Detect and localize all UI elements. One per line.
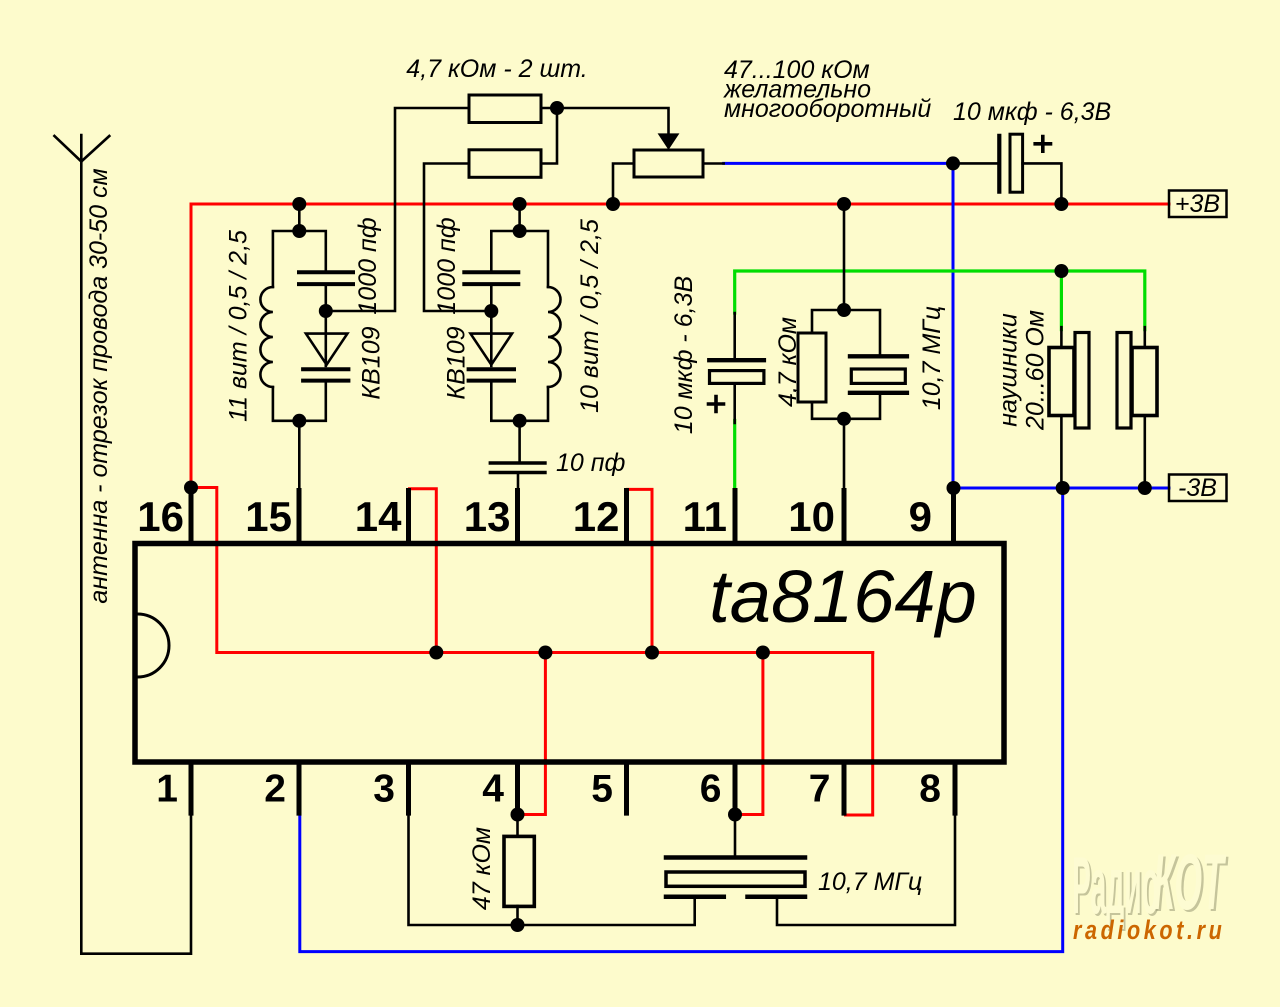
svg-text:ta8164p: ta8164p	[709, 555, 977, 638]
IC notch	[138, 614, 170, 677]
plus sign C5	[1035, 137, 1050, 152]
capacitor C1 1000pF plates	[299, 272, 353, 284]
filter Z1 10.7MHz plates	[850, 356, 907, 393]
node contour2 top stub	[518, 204, 521, 231]
wire pin10 block top	[843, 204, 846, 310]
wire green pin11 cap bottom	[733, 421, 736, 490]
svg-text:13: 13	[464, 493, 511, 540]
pin 1 lead	[189, 764, 194, 816]
svg-text:8: 8	[919, 768, 941, 811]
wire red bus to pin4	[519, 653, 546, 815]
pin 9 lead	[951, 489, 956, 542]
pin 6 lead	[733, 764, 738, 816]
potentiometer RP1 body	[634, 150, 703, 177]
resistor R2 4.7k body	[469, 150, 541, 178]
resistor R3 4.7k body	[798, 333, 826, 402]
quartz ZQ1 10.7MHz top plate	[666, 855, 805, 860]
wire red bus to pin6	[736, 653, 763, 815]
svg-text:КВ109: КВ109	[443, 326, 471, 399]
wire quartz right to pin8	[777, 816, 955, 925]
resistor R4 47k body	[504, 836, 534, 906]
pin 14 lead	[406, 488, 411, 542]
pin 5 lead	[624, 764, 629, 816]
logo RadioKOT	[1072, 838, 1229, 946]
wire contour2 bottom to capacitor 10pF	[518, 421, 521, 463]
svg-text:20...60 Ом: 20...60 Ом	[1022, 310, 1050, 431]
filter Z1 body	[851, 369, 905, 383]
capacitor C5 plate hollow	[1010, 134, 1023, 192]
wire pin6 to quartz	[734, 815, 737, 858]
svg-text:10: 10	[788, 493, 835, 540]
wire blue -3V rail	[953, 487, 1169, 490]
wire contour1 frame	[273, 231, 326, 421]
wire blue -3V to pin2	[300, 488, 1063, 952]
wire red staple pin14	[410, 489, 437, 653]
svg-text:4,7 кОм: 4,7 кОм	[774, 317, 802, 407]
svg-text:наушники: наушники	[995, 313, 1023, 427]
capacitor C3 10pF plates	[490, 463, 545, 473]
wire contour1 bottom to pin15	[298, 421, 301, 489]
wire pin4 to resistor R4	[516, 815, 519, 837]
junction dots	[292, 197, 306, 211]
svg-text:10,7 МГц: 10,7 МГц	[918, 306, 946, 410]
wire resistors right junction	[541, 108, 669, 164]
svg-text:1: 1	[156, 768, 178, 811]
svg-text:10 мкф - 6,3В: 10 мкф - 6,3В	[953, 98, 1111, 126]
svg-text:10,7 МГц: 10,7 МГц	[818, 868, 922, 896]
svg-text:11 вит / 0,5 / 2,5: 11 вит / 0,5 / 2,5	[225, 230, 253, 422]
svg-text:7: 7	[809, 768, 831, 811]
svg-text:КОТ: КОТ	[1153, 838, 1226, 926]
wire contour2 frame	[491, 231, 548, 421]
wire red staple pin12	[628, 489, 653, 652]
pin 7 lead	[842, 764, 847, 816]
svg-text:многооборотный: многооборотный	[724, 95, 931, 123]
wire blue pot to pin9	[724, 163, 953, 488]
node +3V label box	[1169, 191, 1227, 218]
svg-text:47 кОм: 47 кОм	[468, 827, 496, 910]
plus sign C4	[709, 397, 724, 412]
headphone BF1 stubs	[1060, 327, 1063, 488]
svg-text:11: 11	[683, 493, 727, 540]
svg-text:5: 5	[591, 768, 613, 811]
resistor R3 4.7k frame	[812, 310, 880, 419]
wire contour2 junction to resistor R2	[424, 164, 491, 312]
svg-text:1000 пф: 1000 пф	[354, 217, 382, 314]
headphone BF2 tall plate	[1117, 333, 1131, 429]
antenna	[54, 135, 109, 162]
capacitor C5 10uF top right: left lead	[953, 162, 997, 165]
pin 3 lead	[406, 764, 411, 816]
node contour1 top stub	[298, 204, 301, 231]
wire pin10 block bottom to pin10	[843, 419, 846, 489]
capacitor C2 1000pF plates	[464, 272, 518, 284]
svg-text:radiokot.ru: radiokot.ru	[1073, 916, 1225, 946]
varicap VD2 KB109	[471, 311, 513, 366]
wire red bus to pin7	[846, 653, 873, 816]
svg-text:3: 3	[373, 768, 395, 811]
headphone BF1 tall plate	[1075, 333, 1089, 429]
pin 4 lead	[515, 764, 520, 816]
wire red pin16 to internal bus	[191, 488, 873, 653]
pin 11 lead	[733, 488, 738, 542]
pin 12 lead	[624, 488, 629, 542]
node -3V label box	[1169, 475, 1227, 502]
svg-text:4: 4	[482, 768, 504, 811]
capacitor C4 plate solid	[709, 358, 764, 362]
headphone BF2 stubs	[1144, 327, 1147, 488]
svg-text:КВ109: КВ109	[358, 326, 386, 399]
potentiometer RP1 arrow	[660, 135, 677, 148]
wire +3V red top rail	[191, 204, 1169, 488]
inductor L2 10 turns	[548, 287, 561, 387]
capacitor C4 10uF at pin11: leads	[733, 313, 736, 423]
svg-text:10 вит / 0,5 / 2,5: 10 вит / 0,5 / 2,5	[576, 219, 604, 413]
svg-text:4,7 кОм - 2 шт.: 4,7 кОм - 2 шт.	[406, 55, 587, 83]
wire pin3 to ground net	[409, 816, 695, 925]
varicap VD1 KB109	[306, 311, 348, 366]
wire resistor R4 bottom	[516, 906, 519, 925]
wire C5 right lead to +3V	[1023, 163, 1062, 204]
wire green headphone1 drop	[1060, 271, 1063, 330]
quartz ZQ1 bottom plates	[666, 895, 805, 900]
svg-text:6: 6	[700, 768, 722, 811]
svg-text:2: 2	[264, 768, 286, 811]
wire pot left lead to +3V	[613, 164, 634, 205]
capacitor C4 plate hollow	[710, 371, 764, 384]
svg-text:1000 пф: 1000 пф	[433, 217, 461, 314]
pin 10 lead	[842, 488, 847, 542]
wire capacitor 10pF to pin13	[517, 473, 520, 490]
svg-text:+3В: +3В	[1175, 190, 1220, 218]
svg-text:антенна - отрезок провода 30-5: антенна - отрезок провода 30-50 см	[85, 168, 113, 603]
svg-text:10 пф: 10 пф	[556, 449, 626, 477]
wire antenna to pin1	[81, 162, 191, 954]
svg-text:-3В: -3В	[1178, 474, 1217, 502]
headphone BF1 body	[1049, 348, 1074, 416]
pin 8 lead	[953, 764, 958, 816]
quartz ZQ1 body	[666, 872, 805, 886]
pin 16 lead	[189, 488, 194, 542]
IC U1 ta8164p body	[135, 544, 1004, 763]
capacitor C5 plate solid	[997, 136, 1001, 192]
svg-text:14: 14	[355, 493, 402, 540]
pin 2 lead	[297, 764, 302, 816]
pin 13 lead	[515, 488, 520, 542]
svg-text:15: 15	[245, 493, 292, 540]
svg-text:9: 9	[909, 493, 932, 540]
svg-text:16: 16	[137, 493, 184, 540]
pin 15 lead	[297, 488, 302, 542]
headphone BF2 body	[1132, 348, 1157, 416]
inductor L1 11 turns	[260, 287, 273, 387]
resistor R1 4.7k body	[469, 95, 541, 123]
wire green pin11 cap top to headphones	[735, 271, 1145, 330]
wire pot right lead	[703, 162, 724, 165]
svg-text:10 мкф - 6,3В: 10 мкф - 6,3В	[670, 276, 698, 434]
wire contour1 junction to resistor R1	[326, 108, 469, 311]
svg-text:12: 12	[573, 493, 620, 540]
